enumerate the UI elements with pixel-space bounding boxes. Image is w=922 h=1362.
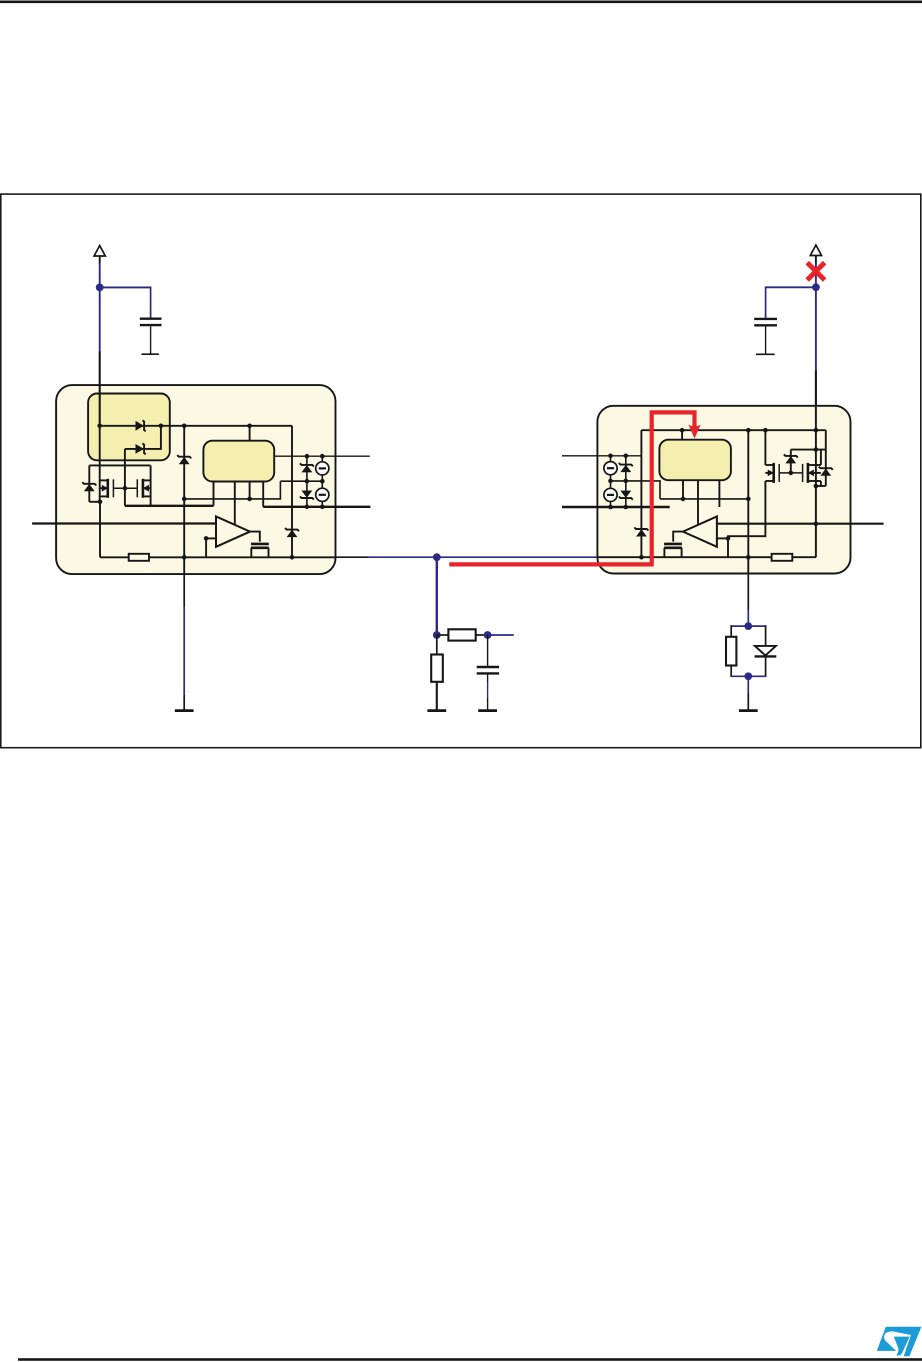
node rail-vcc2 xyxy=(814,428,819,433)
wire plus input xyxy=(206,537,216,539)
node RC junction xyxy=(484,631,492,639)
wire output net blue xyxy=(369,556,598,558)
node rail-gnd U2 xyxy=(746,428,751,433)
current source I4 xyxy=(604,488,617,501)
wire bottom rail U1 xyxy=(100,556,336,558)
diode D3 xyxy=(300,463,314,472)
wire top rail U2 xyxy=(641,429,825,431)
wire left rail vertical U2 xyxy=(640,430,642,557)
wire to C2 horizontal xyxy=(766,286,816,288)
transistor M3 xyxy=(765,463,779,483)
node rail pin xyxy=(247,424,252,429)
node gnd-rail2 U2 xyxy=(746,555,751,560)
control block U1 xyxy=(203,441,274,482)
pin block U2 up xyxy=(681,430,683,440)
wire top rail U1 xyxy=(100,425,292,427)
wire VCC2 vertical through xyxy=(815,404,817,557)
node RD top xyxy=(744,622,752,630)
node E2-vcc xyxy=(814,521,819,526)
node rail-M3 xyxy=(763,428,768,433)
capacitor C2 xyxy=(754,319,777,354)
resistor R2 horizontal xyxy=(437,629,488,640)
wire RD to ground xyxy=(747,676,749,710)
diode D6 xyxy=(177,455,191,464)
node bias-gnd U2 xyxy=(746,497,751,502)
node gate drive xyxy=(123,486,128,491)
wire ground vertical U2 xyxy=(747,430,749,574)
node bias-gnd xyxy=(182,497,187,502)
diode D9 xyxy=(819,467,833,476)
node down3 U2 xyxy=(681,497,686,502)
op-amp U1A xyxy=(216,516,250,546)
capacitor C1 xyxy=(140,319,162,355)
node rail-vcc xyxy=(97,424,102,429)
node M1 source xyxy=(98,500,103,505)
figure frame xyxy=(1,194,921,748)
node plus input U2 xyxy=(726,536,731,541)
wire gate connector U2 xyxy=(779,472,802,474)
wire cell top strap xyxy=(89,464,150,466)
capacitor C3 xyxy=(477,635,499,711)
current source I2 xyxy=(316,488,329,501)
power symbol VCC1 xyxy=(94,246,105,257)
transistor M2 xyxy=(137,465,150,505)
node plus input xyxy=(204,536,209,541)
wire opamp out U2 xyxy=(673,532,683,542)
control block U2 xyxy=(659,440,731,481)
wire RD bottom blue xyxy=(731,675,765,677)
ground C3 xyxy=(478,710,497,712)
top rule xyxy=(0,1,922,4)
node VCC1 junction xyxy=(96,284,104,292)
diode D1b charge pump xyxy=(136,443,146,454)
wire M1 source down xyxy=(99,502,101,558)
wire input line E xyxy=(32,522,216,524)
node down3 xyxy=(247,497,252,502)
wire VCC2 into IC2 xyxy=(815,371,817,431)
wire input line E2 xyxy=(717,523,884,525)
node cell bottom vcc xyxy=(814,484,819,489)
wire M3 source down xyxy=(728,481,765,538)
wire VCC1 into IC1 xyxy=(99,352,101,427)
wire down to divider xyxy=(436,557,438,635)
diode D4 xyxy=(300,491,314,500)
pin block U1 up xyxy=(249,426,251,441)
transistor M1 xyxy=(100,479,113,498)
wire line C2b pin thick xyxy=(562,506,670,508)
wire line A2 pin xyxy=(562,455,641,457)
diode D8 gate zener xyxy=(784,454,798,463)
pin block U1 down2 xyxy=(234,482,236,525)
wire line C2 pin thick xyxy=(263,506,370,508)
wire VCC2 stub xyxy=(815,256,817,264)
node D5-rail xyxy=(290,555,295,560)
wire RD top right blue xyxy=(748,625,765,627)
charge pump block U1 xyxy=(88,394,170,461)
diode D7 xyxy=(634,527,648,536)
wire to C2 vertical xyxy=(765,286,767,318)
wire VCC2 vertical blue xyxy=(815,263,817,372)
ground U2 xyxy=(739,710,758,712)
node divider top xyxy=(433,631,441,639)
pin block U1 down1 xyxy=(213,482,215,506)
pin block U2 down2 xyxy=(697,480,699,525)
wire strap U2 xyxy=(791,449,826,451)
wire to C1 vertical xyxy=(150,287,152,319)
transistor M6 xyxy=(664,544,682,557)
ground R3 xyxy=(427,710,446,712)
wire diode column U2 xyxy=(625,456,627,507)
pin block U1 down3 xyxy=(249,482,251,499)
wire strap corner down xyxy=(825,430,827,486)
wire RD top left blue xyxy=(731,625,748,627)
wire VCC1 vertical blue xyxy=(99,263,101,353)
diode D11 xyxy=(619,491,633,500)
current source I3 xyxy=(604,462,617,475)
wire gate drive vertical xyxy=(124,449,126,506)
wire VCC1 stub xyxy=(99,256,101,264)
wire body diode branch xyxy=(88,465,90,501)
node RD bottom xyxy=(744,672,752,680)
diode D12 xyxy=(755,625,777,677)
node pump join xyxy=(159,424,164,429)
pin block U2 down1 xyxy=(718,480,720,507)
wire right rail vertical xyxy=(291,426,293,558)
wire gate connector xyxy=(113,487,137,489)
wire line D2 bias xyxy=(660,498,748,500)
transistor M5 xyxy=(251,544,269,557)
node D7-rail xyxy=(639,555,644,560)
node C2b dots xyxy=(608,505,628,510)
node rail-gnd xyxy=(182,424,187,429)
resistor R5 xyxy=(726,625,736,677)
wire cell bottom strap xyxy=(89,501,100,503)
node output junction xyxy=(433,553,441,561)
wire VCC vertical through cell xyxy=(99,426,101,502)
node strap-vcc xyxy=(814,447,819,452)
wire VCC1 inside IC xyxy=(99,384,101,426)
node VCC2 junction xyxy=(812,283,820,291)
wire cell bottom U2 xyxy=(816,485,826,487)
X mark supply off xyxy=(807,263,824,280)
wire plus input U2 xyxy=(717,537,728,539)
wire line C1 thick xyxy=(125,505,214,507)
node rail block pin xyxy=(680,428,685,433)
transistor M4 xyxy=(803,450,821,486)
ground U1 xyxy=(175,710,194,712)
resistor R4 xyxy=(772,554,793,561)
wire lower pump line xyxy=(125,426,161,449)
wire M3 top lead vertical xyxy=(764,430,766,465)
diode D1a charge pump xyxy=(136,420,146,431)
diode D2 body xyxy=(82,482,96,491)
wire output stub black xyxy=(336,556,369,558)
wire source column xyxy=(321,456,323,507)
node gate zener xyxy=(789,471,794,476)
wire ground stub U1 xyxy=(183,574,185,711)
wire zener1 up xyxy=(790,450,792,473)
wire source column U2 xyxy=(610,456,612,507)
node gnd-rail2 xyxy=(182,555,187,560)
wire stub right blue xyxy=(488,634,514,636)
IC U2 body xyxy=(597,406,850,574)
red arrowhead xyxy=(688,425,700,439)
wire ground vertical U1 xyxy=(183,426,185,574)
node A dots xyxy=(305,454,325,459)
diode D5 xyxy=(285,528,299,537)
wire diode column xyxy=(306,456,308,507)
bottom rule xyxy=(18,1358,922,1361)
current source I1 xyxy=(316,462,329,475)
wire gnd stub U2 xyxy=(747,574,749,626)
wire to C1 horizontal xyxy=(100,286,151,288)
resistor R3 vertical xyxy=(431,635,443,711)
resistor R1 xyxy=(129,554,149,561)
pin block U1 down4 xyxy=(262,482,264,507)
wire plus to rail xyxy=(205,538,207,557)
wire plus to rail U2 xyxy=(727,538,729,557)
wire line D bias xyxy=(184,481,280,499)
wire bottom rail U2 xyxy=(598,556,816,558)
IC U1 body xyxy=(56,385,335,574)
wire line B mid xyxy=(280,480,322,482)
node B dots xyxy=(305,479,325,484)
node C dots xyxy=(305,505,325,510)
node A2 dots xyxy=(608,454,628,459)
wire line A pin xyxy=(274,455,370,457)
red reverse path xyxy=(449,412,694,564)
wire line B2 mid xyxy=(611,481,661,499)
diode D10 xyxy=(619,463,633,472)
pin block U2 down3 xyxy=(682,480,684,499)
op-amp U2A xyxy=(683,516,717,546)
wire opamp out xyxy=(250,532,260,542)
power symbol VCC2 xyxy=(810,245,821,256)
node B2 dots xyxy=(608,479,628,484)
